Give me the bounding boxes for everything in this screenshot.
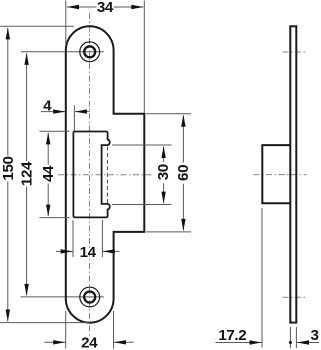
dimension 30 <box>112 145 172 205</box>
side view bottom hole mark <box>283 296 306 298</box>
dimension 24 <box>44 311 133 350</box>
front view plate outline <box>66 26 145 322</box>
bottom hole crosshair / 124 extension line <box>21 296 104 298</box>
latch cutout <box>73 132 109 218</box>
hidden line between notches <box>106 147 108 204</box>
dimension 34 <box>66 0 145 113</box>
vertical centerline front view <box>89 13 91 336</box>
bottom screw hole <box>80 287 100 307</box>
dimension 17.2 <box>215 208 262 348</box>
svg-text:44: 44 <box>40 165 57 182</box>
side view top hole mark <box>283 51 306 53</box>
top hole crosshair / 124 extension line <box>21 51 104 53</box>
dimension 150 <box>0 26 89 322</box>
svg-text:17.2: 17.2 <box>218 327 246 344</box>
top screw hole <box>80 42 100 62</box>
svg-text:24: 24 <box>81 334 98 350</box>
side view centerline <box>254 174 307 176</box>
dimension 44 <box>39 131 69 217</box>
svg-text:30: 30 <box>155 164 172 180</box>
dimension 14 <box>56 220 120 261</box>
svg-text:34: 34 <box>97 0 114 16</box>
dimension 4 <box>41 97 90 131</box>
svg-text:14: 14 <box>80 244 97 261</box>
dimension 3 <box>289 327 319 348</box>
svg-text:4: 4 <box>43 97 52 114</box>
horizontal centerline front view <box>58 174 154 176</box>
dimension 124 <box>19 53 36 296</box>
svg-text:124: 124 <box>19 161 36 186</box>
dimension 60 <box>146 114 192 232</box>
svg-text:60: 60 <box>175 165 192 181</box>
svg-text:3: 3 <box>310 327 318 344</box>
side view lip <box>262 145 290 203</box>
svg-text:150: 150 <box>0 156 17 180</box>
side view plate <box>290 26 296 322</box>
